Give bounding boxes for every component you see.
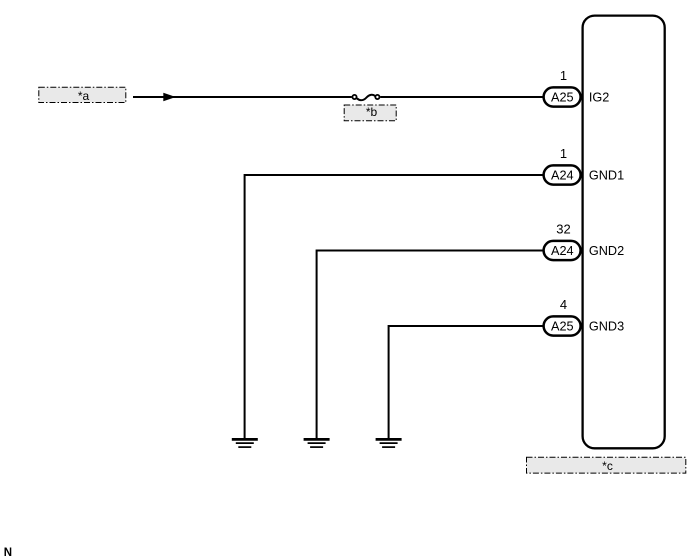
svg-text:*c: *c — [602, 459, 613, 473]
svg-text:A24: A24 — [551, 168, 574, 182]
svg-text:1: 1 — [560, 146, 567, 161]
svg-text:4: 4 — [560, 297, 567, 312]
svg-text:IG2: IG2 — [589, 91, 609, 105]
svg-text:*b: *b — [366, 105, 378, 119]
svg-text:1: 1 — [560, 68, 567, 83]
svg-text:A25: A25 — [551, 319, 574, 333]
svg-text:GND2: GND2 — [589, 244, 624, 258]
svg-text:GND1: GND1 — [589, 169, 624, 183]
svg-text:N: N — [4, 547, 12, 559]
svg-text:32: 32 — [556, 222, 570, 237]
svg-text:GND3: GND3 — [589, 320, 624, 334]
svg-text:A25: A25 — [551, 90, 574, 104]
svg-text:*a: *a — [78, 89, 90, 103]
svg-text:A24: A24 — [551, 244, 574, 258]
